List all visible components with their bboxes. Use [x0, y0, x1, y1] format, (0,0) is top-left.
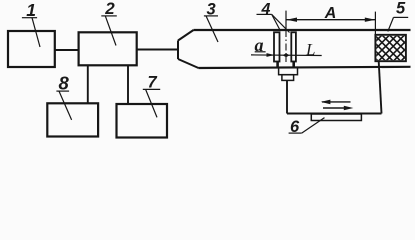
label 6 — [289, 118, 325, 137]
extension line / centerline x=286 — [285, 11, 287, 62]
waveguide tube bottom edge — [199, 67, 411, 68]
probe right foot stub — [292, 62, 295, 68]
svg-text:4: 4 — [261, 1, 271, 18]
box 7 — [117, 104, 168, 138]
svg-text:5: 5 — [396, 0, 406, 18]
movement arrows — [321, 100, 354, 111]
moving frame (carriage to load) — [287, 61, 382, 113]
dimension A — [286, 5, 375, 35]
label 4 — [257, 1, 290, 33]
svg-text:A: A — [324, 5, 337, 22]
waveguide tube top edge — [194, 29, 411, 31]
wire box2-horn — [137, 49, 178, 51]
probe carriage flange — [279, 67, 298, 75]
wire box2-box7 — [127, 65, 129, 104]
probe left foot stub — [276, 62, 279, 68]
slide base item 6 — [311, 114, 361, 121]
probe right (item 4) — [291, 32, 296, 61]
label 5 — [388, 0, 408, 32]
label 3 — [204, 1, 218, 43]
wire box2-box8 — [87, 65, 89, 103]
probe carriage block — [282, 75, 294, 81]
box 1 (generator) — [8, 31, 55, 67]
label 2 — [101, 0, 117, 45]
dimension a — [251, 35, 322, 59]
label 7 — [143, 74, 160, 118]
svg-text:L: L — [305, 40, 315, 59]
label 8 — [56, 73, 71, 120]
box 8 — [47, 103, 98, 136]
label 1 — [22, 0, 40, 47]
matched load item 5 (cross-hatched box) — [370, 0, 412, 95]
wire box1-box2 — [55, 49, 79, 51]
horn transition (item 3) — [178, 30, 199, 68]
probe left (item 4) — [274, 32, 280, 61]
svg-text:8: 8 — [59, 73, 70, 94]
box 2 — [79, 32, 137, 65]
